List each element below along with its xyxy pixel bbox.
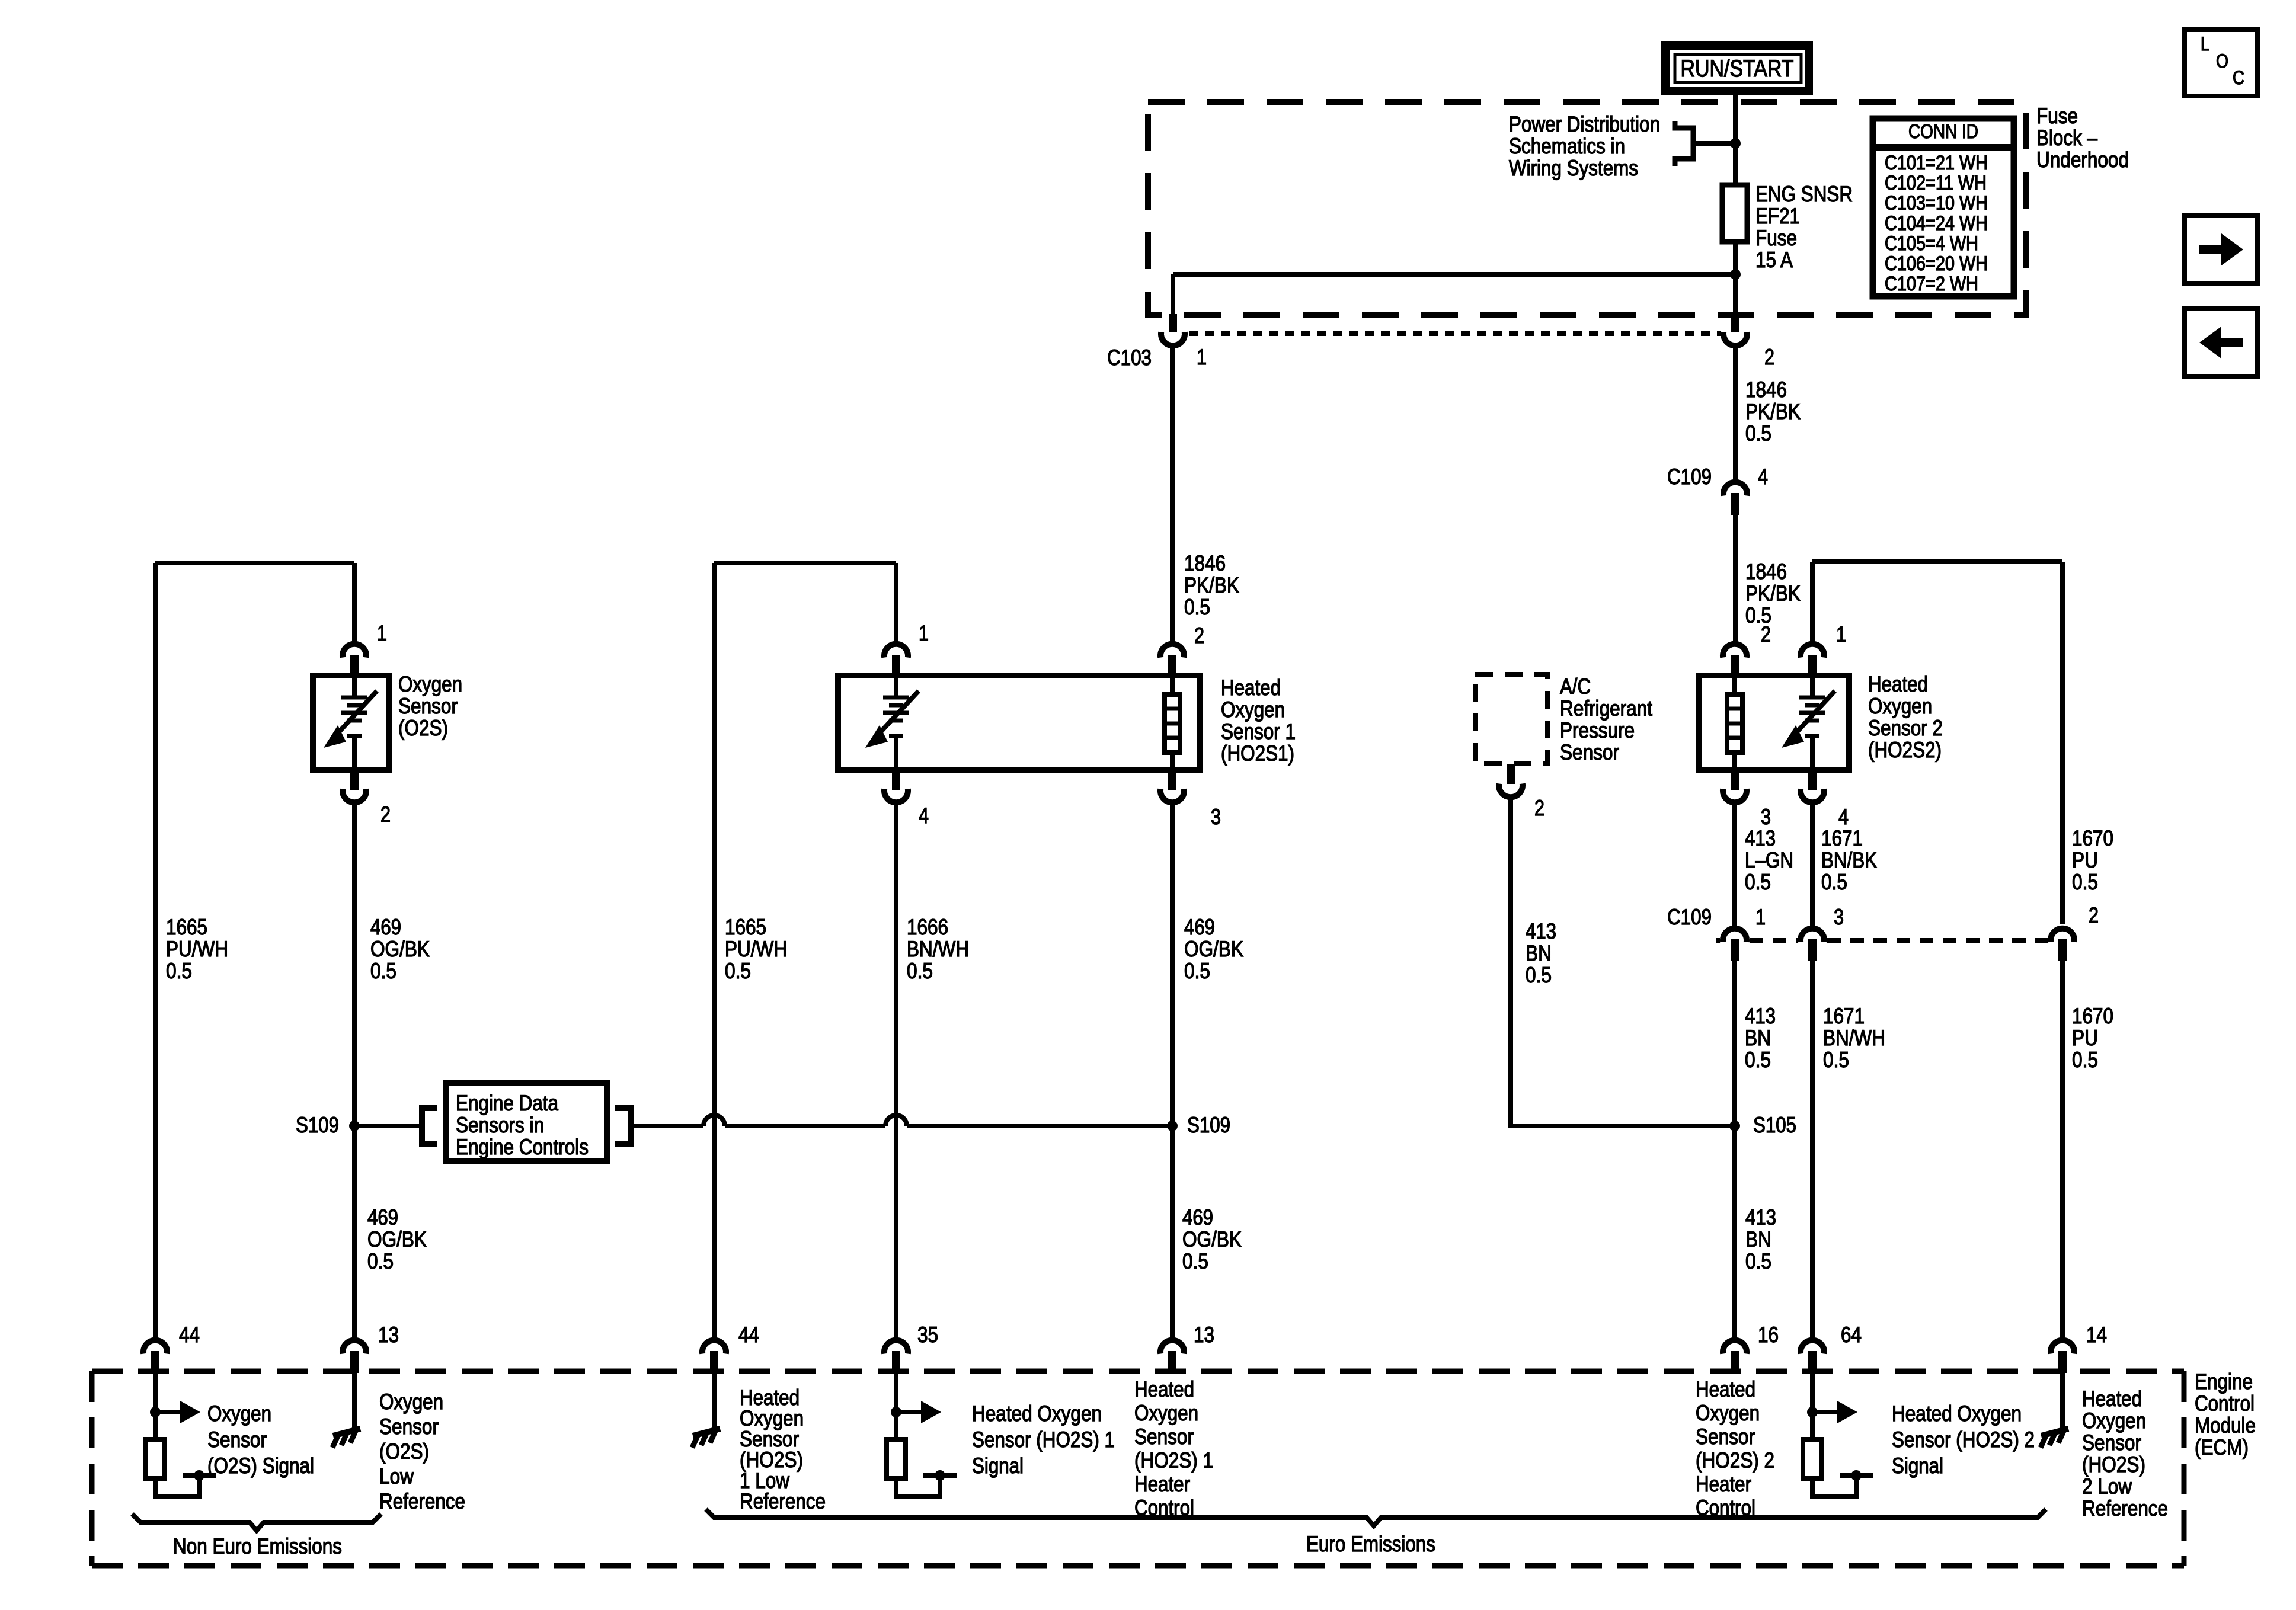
svg-text:413: 413 xyxy=(1526,919,1556,943)
svg-text:Reference: Reference xyxy=(740,1489,826,1513)
svg-text:A/C: A/C xyxy=(1560,674,1591,699)
svg-text:PK/BK: PK/BK xyxy=(1745,581,1801,606)
svg-text:Sensor: Sensor xyxy=(207,1427,267,1452)
svg-text:BN: BN xyxy=(1745,1026,1771,1050)
svg-text:469: 469 xyxy=(1184,915,1215,939)
svg-text:Engine: Engine xyxy=(2195,1369,2253,1394)
svg-text:BN: BN xyxy=(1745,1227,1771,1251)
svg-text:Sensor: Sensor xyxy=(1134,1425,1194,1449)
svg-text:(HO2S) 2: (HO2S) 2 xyxy=(1696,1448,1774,1473)
svg-text:15 A: 15 A xyxy=(1755,248,1793,272)
svg-text:C106=20 WH: C106=20 WH xyxy=(1885,252,1988,275)
svg-text:Fuse: Fuse xyxy=(1755,226,1797,250)
svg-text:Oxygen: Oxygen xyxy=(2082,1409,2146,1433)
svg-text:Module: Module xyxy=(2195,1413,2256,1438)
svg-text:Control: Control xyxy=(2195,1391,2255,1416)
svg-text:0.5: 0.5 xyxy=(1182,1249,1208,1273)
svg-text:BN/WH: BN/WH xyxy=(1823,1026,1885,1050)
svg-text:1846: 1846 xyxy=(1745,559,1787,584)
svg-text:413: 413 xyxy=(1745,1205,1776,1230)
svg-text:1665: 1665 xyxy=(725,915,766,939)
svg-text:PU: PU xyxy=(2072,848,2098,872)
svg-text:Sensor 1: Sensor 1 xyxy=(1221,719,1296,744)
svg-text:0.5: 0.5 xyxy=(367,1249,394,1273)
svg-text:L–GN: L–GN xyxy=(1745,848,1793,872)
svg-text:C104=24 WH: C104=24 WH xyxy=(1885,212,1988,235)
svg-text:44: 44 xyxy=(179,1323,200,1347)
svg-text:PK/BK: PK/BK xyxy=(1184,573,1239,597)
svg-text:L: L xyxy=(2201,33,2209,55)
svg-text:Heater: Heater xyxy=(1696,1472,1751,1496)
svg-text:Underhood: Underhood xyxy=(2036,148,2129,172)
svg-text:C: C xyxy=(2233,67,2244,88)
svg-text:(O2S): (O2S) xyxy=(379,1439,429,1464)
svg-text:Sensor 2: Sensor 2 xyxy=(1868,716,1943,740)
svg-text:C107=2 WH: C107=2 WH xyxy=(1885,273,1978,295)
svg-text:3: 3 xyxy=(1211,805,1221,829)
svg-text:S109: S109 xyxy=(1187,1113,1230,1137)
svg-text:Euro Emissions: Euro Emissions xyxy=(1306,1532,1435,1556)
svg-text:Heated: Heated xyxy=(2082,1387,2142,1411)
svg-text:C102=11 WH: C102=11 WH xyxy=(1885,172,1987,194)
svg-text:0.5: 0.5 xyxy=(1745,421,1771,446)
svg-text:BN/BK: BN/BK xyxy=(1821,848,1877,872)
svg-text:OG/BK: OG/BK xyxy=(370,937,430,961)
svg-text:2 Low: 2 Low xyxy=(2082,1474,2132,1499)
svg-text:2: 2 xyxy=(1761,622,1771,646)
svg-text:1670: 1670 xyxy=(2072,826,2113,850)
svg-text:Heated: Heated xyxy=(1134,1377,1194,1401)
svg-text:13: 13 xyxy=(378,1323,399,1347)
svg-text:0.5: 0.5 xyxy=(725,959,751,983)
svg-text:BN: BN xyxy=(1526,941,1552,965)
svg-text:S109: S109 xyxy=(296,1113,339,1137)
svg-text:413: 413 xyxy=(1745,826,1776,850)
svg-text:Engine Controls: Engine Controls xyxy=(456,1135,589,1159)
svg-text:Reference: Reference xyxy=(2082,1496,2168,1521)
svg-text:ENG SNSR: ENG SNSR xyxy=(1755,182,1853,206)
svg-text:Non Euro Emissions: Non Euro Emissions xyxy=(173,1534,342,1558)
svg-text:2: 2 xyxy=(1764,345,1774,369)
svg-text:Sensor: Sensor xyxy=(398,694,458,718)
svg-text:0.5: 0.5 xyxy=(907,959,933,983)
svg-text:Fuse: Fuse xyxy=(2036,104,2078,128)
svg-text:C109: C109 xyxy=(1667,465,1712,489)
svg-text:OG/BK: OG/BK xyxy=(367,1227,427,1251)
svg-text:Sensors in: Sensors in xyxy=(456,1113,544,1137)
svg-text:0.5: 0.5 xyxy=(1821,870,1847,894)
svg-text:S105: S105 xyxy=(1753,1113,1796,1137)
svg-text:PK/BK: PK/BK xyxy=(1745,399,1801,424)
svg-text:C105=4 WH: C105=4 WH xyxy=(1885,232,1978,255)
svg-text:C101=21 WH: C101=21 WH xyxy=(1885,152,1988,174)
svg-text:469: 469 xyxy=(370,915,401,939)
svg-text:Schematics in: Schematics in xyxy=(1509,134,1625,158)
svg-text:469: 469 xyxy=(1182,1205,1213,1230)
svg-text:2: 2 xyxy=(1194,623,1204,648)
svg-text:C103: C103 xyxy=(1107,345,1152,370)
svg-text:Block –: Block – xyxy=(2036,126,2097,150)
svg-text:1: 1 xyxy=(1755,905,1766,929)
svg-text:1671: 1671 xyxy=(1821,826,1863,850)
svg-text:2: 2 xyxy=(1534,796,1544,820)
svg-text:0.5: 0.5 xyxy=(1823,1048,1849,1072)
svg-text:(O2S) Signal: (O2S) Signal xyxy=(207,1454,314,1478)
svg-text:Sensor: Sensor xyxy=(1560,740,1619,764)
svg-text:PU/WH: PU/WH xyxy=(166,937,228,961)
svg-text:C103=10 WH: C103=10 WH xyxy=(1885,192,1988,215)
svg-text:(HO2S1): (HO2S1) xyxy=(1221,741,1294,766)
svg-text:Oxygen: Oxygen xyxy=(398,672,462,696)
svg-text:OG/BK: OG/BK xyxy=(1182,1227,1242,1251)
svg-text:Refrigerant: Refrigerant xyxy=(1560,696,1653,721)
svg-text:Oxygen: Oxygen xyxy=(379,1390,443,1414)
svg-text:0.5: 0.5 xyxy=(2072,1048,2098,1072)
svg-text:1666: 1666 xyxy=(907,915,948,939)
svg-text:0.5: 0.5 xyxy=(1745,870,1771,894)
svg-text:1846: 1846 xyxy=(1745,377,1787,402)
svg-text:Sensor: Sensor xyxy=(379,1414,439,1439)
svg-text:64: 64 xyxy=(1841,1323,1862,1347)
svg-text:CONN ID: CONN ID xyxy=(1908,120,1978,142)
svg-text:13: 13 xyxy=(1194,1323,1214,1347)
svg-text:2: 2 xyxy=(2089,903,2099,927)
svg-text:RUN/START: RUN/START xyxy=(1681,56,1794,82)
svg-text:Power Distribution: Power Distribution xyxy=(1509,112,1660,136)
svg-text:0.5: 0.5 xyxy=(1184,595,1210,619)
svg-text:2: 2 xyxy=(380,802,391,827)
svg-text:0.5: 0.5 xyxy=(166,959,192,983)
svg-text:Heated: Heated xyxy=(1868,672,1928,696)
svg-text:14: 14 xyxy=(2086,1323,2107,1347)
svg-text:C109: C109 xyxy=(1667,905,1712,929)
svg-text:0.5: 0.5 xyxy=(1745,1048,1771,1072)
svg-text:1: 1 xyxy=(919,621,929,645)
svg-text:0.5: 0.5 xyxy=(2072,870,2098,894)
svg-text:EF21: EF21 xyxy=(1755,204,1800,228)
svg-text:Sensor: Sensor xyxy=(2082,1430,2141,1455)
svg-text:O: O xyxy=(2216,50,2228,72)
svg-text:1846: 1846 xyxy=(1184,551,1226,575)
svg-text:Oxygen: Oxygen xyxy=(1134,1401,1198,1425)
svg-text:OG/BK: OG/BK xyxy=(1184,937,1243,961)
svg-text:3: 3 xyxy=(1834,905,1844,929)
svg-text:4: 4 xyxy=(1838,805,1849,829)
svg-text:Wiring Systems: Wiring Systems xyxy=(1509,156,1638,180)
svg-text:0.5: 0.5 xyxy=(1184,959,1210,983)
svg-text:Heated: Heated xyxy=(1221,676,1281,700)
svg-text:(HO2S2): (HO2S2) xyxy=(1868,738,1942,762)
svg-text:(ECM): (ECM) xyxy=(2195,1435,2249,1459)
svg-text:44: 44 xyxy=(738,1323,759,1347)
svg-text:PU: PU xyxy=(2072,1026,2098,1050)
svg-text:Heated: Heated xyxy=(1696,1377,1755,1401)
svg-text:Reference: Reference xyxy=(379,1489,465,1513)
svg-text:Signal: Signal xyxy=(972,1454,1024,1478)
svg-text:(HO2S) 1: (HO2S) 1 xyxy=(1134,1448,1213,1473)
svg-text:1670: 1670 xyxy=(2072,1004,2113,1028)
svg-text:Heater: Heater xyxy=(1134,1472,1190,1496)
svg-text:0.5: 0.5 xyxy=(1526,963,1552,987)
svg-text:PU/WH: PU/WH xyxy=(725,937,787,961)
svg-text:Oxygen: Oxygen xyxy=(1868,694,1932,718)
svg-text:35: 35 xyxy=(917,1323,938,1347)
svg-text:Heated Oxygen: Heated Oxygen xyxy=(1892,1401,2022,1426)
svg-text:413: 413 xyxy=(1745,1004,1776,1028)
svg-text:Low: Low xyxy=(379,1464,414,1489)
svg-text:Oxygen: Oxygen xyxy=(1221,697,1285,722)
svg-text:(O2S): (O2S) xyxy=(398,716,448,740)
svg-text:Engine Data: Engine Data xyxy=(456,1091,558,1115)
svg-text:Sensor (HO2S) 2: Sensor (HO2S) 2 xyxy=(1892,1427,2035,1452)
svg-text:Sensor (HO2S) 1: Sensor (HO2S) 1 xyxy=(972,1427,1115,1452)
svg-text:Oxygen: Oxygen xyxy=(1696,1401,1760,1425)
svg-text:1671: 1671 xyxy=(1823,1004,1865,1028)
svg-text:4: 4 xyxy=(919,804,929,828)
svg-text:Pressure: Pressure xyxy=(1560,718,1635,742)
svg-text:Heated Oxygen: Heated Oxygen xyxy=(972,1401,1102,1426)
svg-text:BN/WH: BN/WH xyxy=(907,937,969,961)
svg-text:1: 1 xyxy=(1836,622,1846,646)
svg-text:1: 1 xyxy=(1197,345,1207,369)
svg-text:Signal: Signal xyxy=(1892,1454,1943,1478)
svg-text:(HO2S): (HO2S) xyxy=(2082,1452,2145,1477)
svg-text:3: 3 xyxy=(1761,805,1771,829)
svg-text:16: 16 xyxy=(1758,1323,1779,1347)
svg-text:1665: 1665 xyxy=(166,915,207,939)
svg-text:0.5: 0.5 xyxy=(370,959,396,983)
svg-text:Oxygen: Oxygen xyxy=(207,1401,271,1426)
svg-text:469: 469 xyxy=(367,1205,398,1230)
svg-text:4: 4 xyxy=(1758,465,1768,489)
svg-text:0.5: 0.5 xyxy=(1745,1249,1771,1273)
svg-text:1: 1 xyxy=(377,621,387,645)
svg-text:Sensor: Sensor xyxy=(1696,1425,1755,1449)
